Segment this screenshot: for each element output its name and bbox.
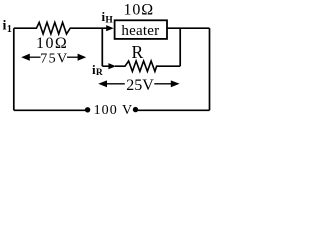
wire: inner right vertical (R branch up) [179,28,181,66]
svg-text:heater: heater [121,23,159,39]
svg-text:10Ω: 10Ω [36,35,68,52]
heater box U1 [115,20,167,39]
node terminal dot left [85,107,90,112]
svg-text:R: R [132,42,144,62]
svg-text:100 V: 100 V [94,103,134,118]
node junction at top (wire down to R branch) [101,28,103,66]
dimension arrow 25V [98,80,107,87]
wire: bottom right segment [138,109,210,111]
wire: heater output to right [167,27,210,29]
svg-text:10Ω: 10Ω [124,1,155,18]
current arrow iH into heater [106,25,114,31]
svg-text:H: H [105,15,113,25]
wire: R branch horizontal with resistor R [102,65,108,67]
resistor R zigzag [115,61,180,71]
svg-text:R: R [96,68,103,78]
svg-text:1: 1 [7,24,12,35]
svg-text:i: i [3,18,7,33]
wire: right vertical [209,28,211,110]
wire: bottom left segment [14,109,86,112]
dimension arrow 75V [21,54,30,61]
svg-text:75V: 75V [40,51,68,66]
current arrow iR [108,63,116,69]
svg-text:25V: 25V [126,77,154,94]
wire: top-left segment with resistor R1 [14,22,107,34]
wire: left vertical branch [13,28,15,110]
node terminal dot right [133,107,138,112]
